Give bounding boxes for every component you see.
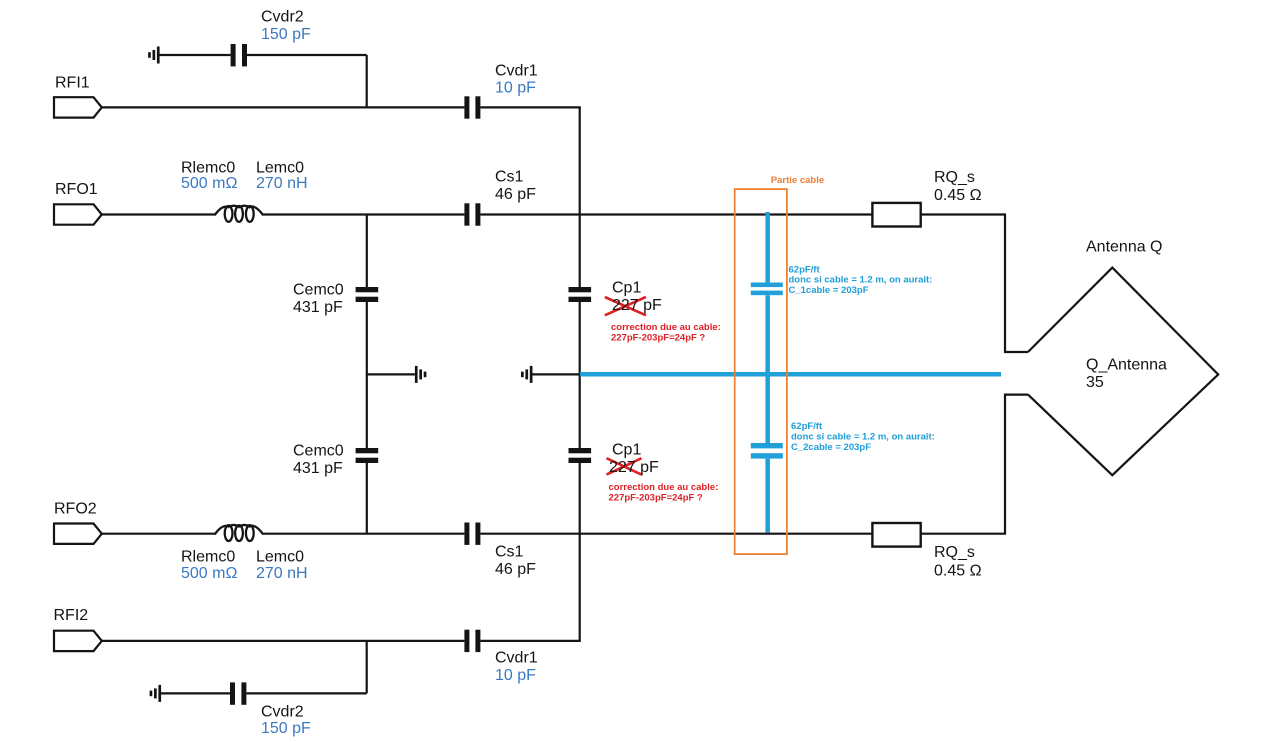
antenna Q_Antenna diamond (1028, 268, 1218, 476)
wire vertical net x=366.8 (366, 215, 368, 534)
port RFO1 (54, 204, 102, 224)
svg-text:227 pF: 227 pF (609, 459, 659, 476)
svg-text:500 mΩ: 500 mΩ (181, 565, 237, 582)
capacitor Cemc0 (bottom) (356, 448, 379, 463)
ground mid-left (right-facing) (415, 366, 427, 383)
svg-text:270 nH: 270 nH (256, 175, 308, 192)
capacitor Cvdr1 (bottom) (464, 630, 480, 652)
svg-text:donc si cable = 1.2 m, on aura: donc si cable = 1.2 m, on aurait: (791, 432, 935, 443)
svg-text:Cemc0: Cemc0 (293, 443, 344, 460)
wire RFO2 horizontal (102, 395, 1029, 534)
svg-text:431 pF: 431 pF (293, 299, 343, 316)
capacitor Cp1 (bottom) (569, 448, 592, 463)
resistor RQ_s (top) (872, 203, 920, 227)
svg-text:431 pF: 431 pF (293, 460, 343, 477)
svg-text:46 pF: 46 pF (495, 561, 536, 578)
ground top-left (148, 47, 159, 64)
svg-text:Antenna Q: Antenna Q (1086, 239, 1163, 256)
svg-text:C_2cable = 203pF: C_2cable = 203pF (791, 442, 871, 453)
svg-text:Cp1: Cp1 (612, 280, 641, 297)
resistor RQ_s (bottom) (872, 523, 920, 547)
svg-text:Lemc0: Lemc0 (256, 549, 304, 566)
wire Cvdr2 bottom branch (161, 641, 367, 694)
svg-text:correction due au cable:: correction due au cable: (611, 322, 721, 333)
svg-text:46 pF: 46 pF (495, 186, 536, 203)
capacitor Cp1 (top) (569, 287, 592, 302)
svg-text:RFO2: RFO2 (54, 501, 97, 518)
svg-text:0.45 Ω: 0.45 Ω (934, 187, 982, 204)
ground mid-right (left-facing) (521, 366, 533, 383)
port RFO2 (54, 524, 102, 544)
svg-text:Cemc0: Cemc0 (293, 282, 344, 299)
svg-text:62pF/ft: 62pF/ft (791, 421, 823, 432)
svg-text:270 nH: 270 nH (256, 565, 308, 582)
wire RFI2 horizontal (102, 640, 581, 642)
strike X over Cp1 value (bottom) (607, 458, 642, 474)
svg-text:150 pF: 150 pF (261, 720, 311, 737)
svg-text:0.45 Ω: 0.45 Ω (934, 563, 982, 580)
svg-text:Cvdr2: Cvdr2 (261, 9, 304, 26)
svg-text:Cvdr2: Cvdr2 (261, 704, 304, 721)
cable blue vertical line (765, 212, 770, 533)
wire vertical net x=579.7 (579, 107, 581, 641)
capacitor Cs1 (top) (464, 203, 480, 225)
wire Cvdr2 top branch (160, 55, 367, 107)
svg-text:Cs1: Cs1 (495, 544, 524, 561)
svg-text:RQ_s: RQ_s (934, 169, 975, 186)
svg-text:C_1cable = 203pF: C_1cable = 203pF (789, 285, 869, 296)
node blue horizontal net (580, 372, 1001, 377)
ground bottom-left (150, 685, 161, 702)
inductor Lemc0 (top) (215, 206, 264, 222)
svg-text:Partie cable: Partie cable (771, 175, 824, 186)
capacitor Cvdr1 (top) (464, 96, 480, 118)
svg-text:Cs1: Cs1 (495, 169, 524, 186)
capacitor C_2cable (blue bottom) (751, 443, 783, 459)
svg-text:35: 35 (1086, 374, 1104, 391)
svg-text:RFI2: RFI2 (54, 607, 89, 624)
Partie cable box (735, 189, 787, 554)
svg-text:227 pF: 227 pF (612, 297, 662, 314)
svg-text:500 mΩ: 500 mΩ (181, 175, 237, 192)
wire RFI1 horizontal (102, 106, 581, 108)
svg-text:227pF-203pF=24pF ?: 227pF-203pF=24pF ? (609, 493, 703, 504)
capacitor Cvdr2 (top) (231, 44, 247, 66)
port RFI1 (54, 97, 102, 117)
port RFI2 (54, 631, 102, 651)
svg-text:RFI1: RFI1 (55, 75, 90, 92)
svg-text:RFO1: RFO1 (55, 181, 98, 198)
svg-text:donc si cable = 1.2 m, on aura: donc si cable = 1.2 m, on aurait: (789, 275, 933, 286)
capacitor Cvdr2 (bottom) (230, 682, 246, 704)
svg-text:Cp1: Cp1 (612, 442, 641, 459)
inductor Lemc0 (bottom) (215, 525, 264, 541)
capacitor Cemc0 (top) (356, 287, 379, 302)
svg-text:10 pF: 10 pF (495, 667, 536, 684)
capacitor Cs1 (bottom) (464, 523, 480, 545)
svg-text:10 pF: 10 pF (495, 80, 536, 97)
svg-text:150 pF: 150 pF (261, 26, 311, 43)
wire RFO1 horizontal (102, 215, 1029, 353)
svg-text:62pF/ft: 62pF/ft (789, 264, 821, 275)
wire ground stub mid-left (367, 373, 415, 375)
svg-text:Cvdr1: Cvdr1 (495, 62, 538, 79)
svg-text:Cvdr1: Cvdr1 (495, 650, 538, 667)
strike X over Cp1 value (top) (605, 297, 646, 315)
svg-text:Q_Antenna: Q_Antenna (1086, 357, 1167, 374)
svg-text:Rlemc0: Rlemc0 (181, 549, 235, 566)
capacitor C_1cable (blue top) (751, 283, 783, 296)
svg-text:RQ_s: RQ_s (934, 544, 975, 561)
svg-text:227pF-203pF=24pF ?: 227pF-203pF=24pF ? (611, 332, 705, 343)
svg-text:correction due au cable:: correction due au cable: (609, 482, 719, 493)
wire ground stub mid-right (532, 373, 580, 375)
